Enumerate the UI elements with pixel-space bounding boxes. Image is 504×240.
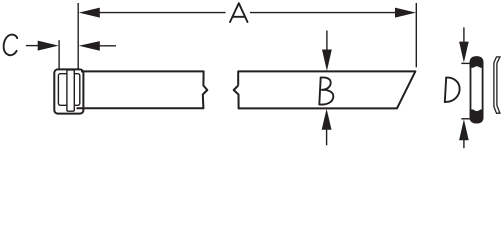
dimension C extension line left bbox=[58, 40, 60, 69]
dimension D top tick line bbox=[461, 62, 471, 64]
dimension D top arrow line bbox=[463, 27, 465, 42]
dimension C right arrowhead bbox=[79, 41, 100, 51]
dimension A left arrowhead bbox=[79, 8, 100, 18]
dimension B bottom arrow line bbox=[326, 129, 328, 145]
dimension A right arrowhead bbox=[395, 8, 416, 18]
side profile clip (bent strip outline) bbox=[494, 57, 500, 113]
dimension D top arrowhead bbox=[459, 42, 469, 63]
letter C bbox=[4, 35, 18, 56]
dimension D bottom arrow line bbox=[463, 140, 465, 149]
strap left piece (top edge, break zigzag, bottom edge) bbox=[77, 71, 208, 108]
buckle inner slot rectangle bbox=[58, 74, 79, 106]
dimension C leader line right bbox=[99, 45, 116, 47]
dimension A extension line left bbox=[77, 3, 79, 69]
letter D bbox=[445, 78, 460, 102]
buckle center bar bbox=[67, 70, 74, 111]
buckle outer frame bbox=[54, 69, 83, 113]
letter B bbox=[319, 77, 333, 104]
dimension A line right segment bbox=[250, 12, 398, 14]
letter A bbox=[230, 3, 248, 22]
strap end view outer pill bbox=[471, 57, 483, 122]
strap right piece (break zigzag, top edge, beveled end, bottom edge) bbox=[234, 71, 416, 108]
dimension B top arrow line bbox=[326, 31, 328, 51]
strap end view bottom cap (filled) bbox=[470, 110, 484, 124]
dimension D bottom tick line bbox=[461, 118, 471, 120]
dimension B top arrowhead bbox=[322, 50, 332, 72]
strap end view top cap (filled) bbox=[470, 56, 484, 68]
dimension A extension line right bbox=[415, 3, 417, 67]
dimension A line left segment bbox=[97, 12, 226, 14]
dimension C leader line left bbox=[26, 45, 39, 47]
dimension D bottom arrowhead bbox=[459, 119, 469, 140]
dimension B bottom arrowhead bbox=[322, 109, 332, 130]
dimension C left arrowhead bbox=[38, 41, 59, 51]
strap end view inner slot bbox=[473, 66, 482, 111]
